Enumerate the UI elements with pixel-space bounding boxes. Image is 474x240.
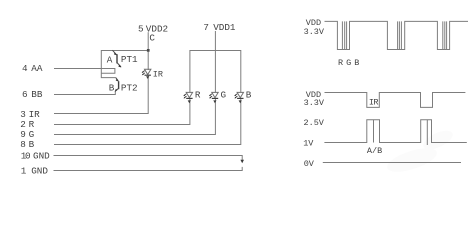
phototransistor PT1 collector diagonal with photo arrow xyxy=(112,50,116,55)
svg-text:4: 4 xyxy=(22,63,28,74)
watermark smudge xyxy=(384,127,455,177)
wire B (pin 8 up to B LED cathode) xyxy=(54,99,241,145)
svg-text:BB: BB xyxy=(31,89,43,100)
svg-text:1: 1 xyxy=(21,165,27,176)
waveform A/B pulse dividers xyxy=(374,120,428,145)
svg-text:GND: GND xyxy=(33,151,50,162)
svg-text:PT2: PT2 xyxy=(121,82,138,93)
svg-text:10: 10 xyxy=(21,151,30,162)
wire B LED anode column xyxy=(240,50,242,93)
wire IR (pin 3 up to IR LED cathode) xyxy=(54,76,148,114)
svg-text:RGB: RGB xyxy=(338,58,362,68)
svg-text:0V: 0V xyxy=(304,159,315,169)
waveform RGB pulse dividers group 2 xyxy=(398,21,402,49)
waveform VDD2 trace (RGB strobe) xyxy=(325,21,469,49)
wire VDD2 / node C vertical xyxy=(147,32,149,70)
LED B (triangle, cathode bar, current arrow) xyxy=(237,92,243,97)
waveform A/B trace xyxy=(324,120,466,143)
waveform RGB pulse dividers group 1 xyxy=(342,21,346,49)
svg-text:3.3V: 3.3V xyxy=(304,98,325,108)
svg-text:B: B xyxy=(29,139,35,150)
svg-text:5: 5 xyxy=(138,23,144,34)
svg-text:IR: IR xyxy=(153,70,163,80)
LED IR emission arrows xyxy=(142,71,145,75)
wire AA (pin 4 to PT1 emitter) xyxy=(54,69,115,74)
wire GND pin 10 with arrow down xyxy=(54,156,243,161)
svg-text:8: 8 xyxy=(20,139,26,150)
svg-text:B: B xyxy=(246,90,252,101)
svg-text:7: 7 xyxy=(203,22,209,33)
waveform IR trace xyxy=(325,93,466,108)
svg-text:A: A xyxy=(107,55,113,66)
LED IR (triangle, cathode bar, current arrow) xyxy=(145,69,151,74)
svg-text:3.3V: 3.3V xyxy=(304,27,325,37)
svg-text:2.5V: 2.5V xyxy=(304,118,325,128)
svg-text:C: C xyxy=(149,33,155,44)
wire G (pin 9 up to G LED cathode) xyxy=(54,99,215,135)
node A box outline (phototransistor A cell) xyxy=(101,51,148,78)
LED G (triangle, cathode bar, current arrow) xyxy=(212,92,218,97)
svg-text:GND: GND xyxy=(31,165,48,176)
wire R (pin 2 up to R LED cathode) xyxy=(54,99,190,125)
svg-text:A/B: A/B xyxy=(367,146,382,156)
wire R LED anode column xyxy=(189,50,191,93)
svg-text:1V: 1V xyxy=(303,139,314,149)
svg-text:VDD1: VDD1 xyxy=(213,22,236,33)
svg-text:G: G xyxy=(221,90,227,101)
phototransistor PT1 emitter diagonal with arrow xyxy=(117,63,121,67)
svg-text:6: 6 xyxy=(22,89,28,100)
wire VDD1 feed vertical xyxy=(214,31,216,51)
svg-text:B: B xyxy=(109,82,115,93)
LED G emission arrows xyxy=(210,94,213,98)
wire GND pin 1 with stub up xyxy=(54,167,243,171)
phototransistor PT2 emitter diagonal with arrow xyxy=(115,88,119,91)
svg-text:AA: AA xyxy=(31,63,43,74)
LED R emission arrows xyxy=(184,94,187,98)
arrowhead GND10 pointing down xyxy=(240,160,244,163)
wire G LED anode column xyxy=(214,50,216,93)
waveform 0V baseline xyxy=(323,162,461,164)
wire VDD1 rail horizontal xyxy=(190,50,241,52)
phototransistor PT2 collector diagonal with photo arrow xyxy=(116,78,119,81)
svg-text:PT1: PT1 xyxy=(121,54,138,65)
LED B emission arrows xyxy=(235,94,238,98)
phototransistor PT2 base bar xyxy=(118,81,120,89)
LED R (triangle, cathode bar, current arrow) xyxy=(186,92,192,97)
svg-text:IR: IR xyxy=(369,97,379,107)
phototransistor PT1 base bar xyxy=(116,54,118,63)
wire BB (pin 6 to PT2 emitter) xyxy=(54,92,115,95)
junction dot C and collector line xyxy=(147,49,150,52)
waveform RGB pulse dividers group 3 xyxy=(443,21,447,49)
svg-text:R: R xyxy=(195,90,201,101)
